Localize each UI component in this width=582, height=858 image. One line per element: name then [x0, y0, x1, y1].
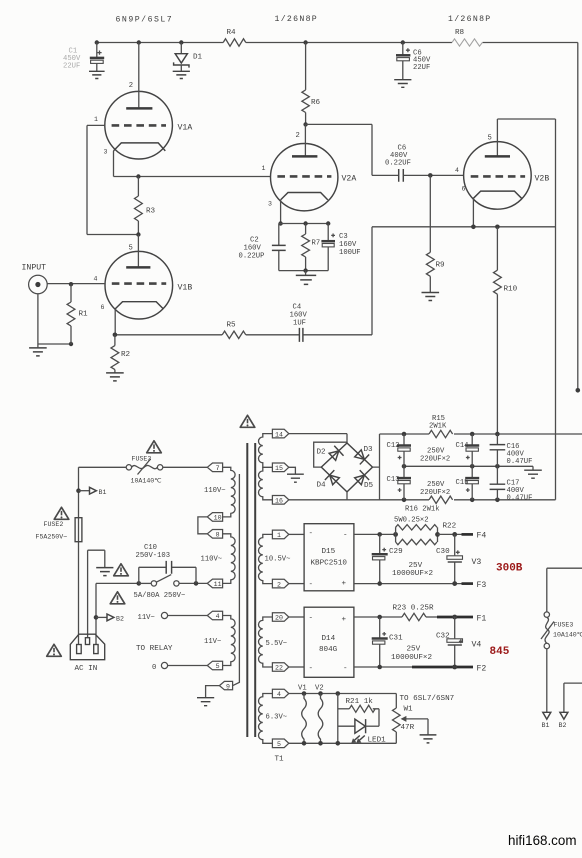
- winding P1 110V: [204, 467, 235, 517]
- wire D15 bottom output: [354, 581, 473, 586]
- tag 11: [207, 579, 222, 588]
- svg-text:0.47UF: 0.47UF: [507, 458, 533, 466]
- svg-text:4: 4: [216, 613, 220, 620]
- resistor R21 1k: [338, 698, 379, 726]
- svg-text:5: 5: [488, 135, 492, 143]
- wire D14 top output: [354, 615, 402, 620]
- rectifier D15 KBPC2510: [304, 524, 354, 591]
- heater V1: [298, 685, 307, 744]
- bridge diamond D2-D5: [321, 443, 372, 492]
- wire V1A cathode to V2A grid: [114, 151, 271, 179]
- svg-text:+: +: [342, 580, 347, 588]
- svg-text:11V~: 11V~: [138, 614, 155, 622]
- wire B+ top rail: [95, 40, 578, 44]
- tag 10: [207, 513, 222, 522]
- svg-text:D4: D4: [317, 482, 327, 490]
- svg-text:2: 2: [277, 581, 281, 588]
- capacitor C16 400V 0.47UF: [490, 434, 533, 466]
- svg-text:R2: R2: [121, 351, 131, 359]
- capacitor C6 400V 0.22UF (coupling): [372, 145, 464, 182]
- svg-text:10000UF×2: 10000UF×2: [392, 570, 433, 578]
- ground (C2 R7 C3): [296, 275, 316, 284]
- svg-text:B1: B1: [542, 722, 550, 729]
- svg-text:F5A250V~: F5A250V~: [36, 534, 68, 541]
- svg-text:+: +: [342, 616, 347, 624]
- wire filter mid rail: [402, 464, 533, 469]
- svg-text:V2A: V2A: [342, 175, 357, 184]
- wire R22 to F4: [438, 532, 474, 537]
- svg-text:-: -: [309, 581, 314, 589]
- ground (D1): [173, 71, 190, 78]
- resistor R8 (faint label): [452, 29, 483, 46]
- V1A cathode: [114, 143, 166, 151]
- svg-text:1: 1: [94, 116, 98, 123]
- svg-text:D14: D14: [322, 635, 336, 643]
- svg-text:hifi168.com: hifi168.com: [508, 833, 576, 848]
- connector arrow B2: [107, 614, 124, 623]
- wire D15 top output: [354, 532, 396, 537]
- ground (shield): [197, 698, 214, 706]
- wire bridge DC+ to filter: [373, 434, 380, 500]
- svg-text:160V: 160V: [244, 245, 262, 253]
- node coupling to V2B grid: [428, 173, 433, 178]
- terminal F2: [477, 665, 487, 674]
- label tube type 1/26N8P: [275, 14, 319, 24]
- rectifier D14 804G: [304, 607, 354, 677]
- svg-text:R16 2W1k: R16 2W1k: [405, 506, 440, 514]
- ground (tag 15): [287, 474, 304, 482]
- diode D5: [353, 470, 369, 486]
- diode D4: [325, 470, 341, 486]
- svg-text:C4: C4: [293, 304, 302, 312]
- tag 16: [272, 496, 288, 505]
- fuse FUSE2 F5A250V: [36, 518, 82, 542]
- svg-text:2: 2: [296, 132, 300, 140]
- capacitor C10 250V-103: [136, 544, 197, 583]
- capacitor C4 160V 1UF: [290, 304, 373, 342]
- svg-text:R22: R22: [443, 523, 457, 531]
- warning triangle (switch upper): [114, 564, 129, 576]
- wire to B1 (bottom): [546, 649, 548, 713]
- capacitor C2 160V 0.22UP: [239, 224, 286, 271]
- resistor R1: [67, 284, 88, 344]
- svg-text:W1: W1: [404, 706, 414, 714]
- svg-text:FUSE3: FUSE3: [554, 622, 574, 629]
- svg-text:7: 7: [216, 465, 220, 472]
- terminal F3: [477, 581, 487, 590]
- wire V2B cathode pin 6: [472, 198, 474, 227]
- wire filter bottom rail: [380, 498, 556, 503]
- tag 5 (primary): [207, 661, 222, 670]
- plug AC IN: [70, 634, 104, 673]
- wire tag1 to D15: [289, 533, 304, 535]
- V2A grid (dashed): [277, 175, 331, 178]
- svg-text:5: 5: [216, 663, 220, 670]
- wire cathode network bottom rail: [279, 268, 328, 275]
- svg-text:4: 4: [455, 167, 459, 174]
- svg-text:FUSE3: FUSE3: [132, 456, 152, 463]
- svg-text:F1: F1: [477, 615, 487, 624]
- svg-text:10: 10: [214, 515, 222, 522]
- svg-text:-: -: [309, 530, 314, 538]
- watermark hifi168.com: [508, 833, 576, 848]
- label tube type 6N9P/6SL7: [116, 15, 174, 25]
- winding P2 110V: [201, 534, 236, 584]
- diode D1 (zener): [174, 43, 203, 72]
- resistor R15 2W1K: [429, 415, 453, 438]
- wire V2A cathode pin3: [278, 200, 282, 226]
- svg-text:4: 4: [94, 276, 98, 283]
- capacitor C12: [387, 434, 412, 466]
- wire mains neutral: [96, 583, 139, 644]
- svg-text:5W0.25×2: 5W0.25×2: [394, 517, 429, 525]
- svg-text:D1: D1: [193, 54, 203, 62]
- svg-text:250V: 250V: [427, 448, 445, 456]
- svg-text:T1: T1: [275, 756, 285, 764]
- svg-text:C3: C3: [339, 233, 348, 241]
- svg-text:8: 8: [216, 532, 220, 539]
- wire D14 bottom output: [354, 665, 473, 670]
- svg-text:300B: 300B: [496, 563, 523, 575]
- wire bridge AC to left vertex: [314, 442, 347, 467]
- capacitor C14: [456, 434, 480, 466]
- label 25V 10000UF x2: [392, 562, 433, 578]
- svg-text:22: 22: [275, 665, 283, 672]
- terminal F4: [477, 532, 487, 541]
- wire tag 9 to ground: [206, 686, 220, 698]
- wire V1B cathode node: [113, 309, 223, 337]
- tag 9 (shield): [219, 681, 232, 690]
- svg-text:TO 6SL7/6SN7: TO 6SL7/6SN7: [400, 695, 455, 703]
- svg-text:250V: 250V: [427, 481, 445, 489]
- label 25V 10000UF x2: [391, 646, 432, 663]
- label TO RELAY: [136, 645, 173, 653]
- svg-text:D2: D2: [317, 449, 327, 457]
- svg-text:-: -: [343, 665, 348, 673]
- diode D3: [353, 448, 369, 464]
- svg-text:0.47UF: 0.47UF: [507, 495, 533, 503]
- svg-text:C13: C13: [387, 476, 400, 484]
- svg-text:R4: R4: [227, 29, 237, 37]
- svg-text:14: 14: [275, 431, 283, 438]
- winding P3 11V: [204, 616, 235, 666]
- potentiometer W1 47R: [393, 694, 415, 744]
- wire R23 to F1: [426, 615, 473, 620]
- svg-text:C15: C15: [456, 479, 469, 487]
- V1A grid (dashed): [112, 124, 166, 127]
- svg-text:6.3V~: 6.3V~: [266, 714, 288, 722]
- svg-text:5A/80A 250V~: 5A/80A 250V~: [134, 592, 186, 600]
- svg-text:R7: R7: [312, 240, 321, 248]
- label 250V 220UF x2 (upper): [420, 448, 450, 464]
- svg-text:V3: V3: [472, 558, 482, 567]
- triode V2A: [262, 124, 357, 210]
- resistor R16 2W1k: [405, 496, 453, 513]
- svg-text:16: 16: [275, 498, 283, 505]
- svg-text:3: 3: [268, 201, 272, 208]
- svg-text:220UF×2: 220UF×2: [420, 489, 450, 497]
- svg-text:804G: 804G: [319, 646, 338, 654]
- label V3: [472, 558, 482, 567]
- svg-text:D15: D15: [322, 548, 336, 556]
- svg-text:2W1K: 2W1K: [429, 423, 447, 431]
- V2A cathode: [281, 193, 328, 200]
- tag 4 (secondary): [272, 689, 288, 698]
- V1A grid pin 1 wire: [87, 124, 105, 126]
- wire right edge drop: [576, 43, 581, 393]
- svg-text:C31: C31: [389, 635, 403, 643]
- svg-text:0.22UP: 0.22UP: [239, 253, 265, 261]
- svg-text:6N9P/6SL7: 6N9P/6SL7: [116, 15, 174, 25]
- svg-text:1: 1: [262, 165, 266, 172]
- resistor R3: [135, 177, 156, 237]
- wire C4 riser to cathode bus: [371, 227, 373, 335]
- svg-text:22UF: 22UF: [413, 64, 430, 72]
- svg-text:4: 4: [277, 691, 281, 698]
- svg-text:10A140℃: 10A140℃: [131, 478, 163, 485]
- svg-text:TO RELAY: TO RELAY: [136, 645, 173, 653]
- svg-text:C12: C12: [387, 442, 400, 450]
- wire V2B plate drop (right): [555, 119, 557, 500]
- warning triangle (switch lower): [110, 592, 125, 604]
- wire cathode network top rail: [279, 221, 331, 225]
- wire from tag 14 to bridge: [289, 434, 347, 443]
- V1B cathode: [115, 302, 163, 309]
- svg-text:R9: R9: [436, 262, 446, 270]
- svg-text:R8: R8: [455, 29, 465, 37]
- svg-text:D3: D3: [364, 446, 374, 454]
- connector 0 to relay: [152, 662, 207, 671]
- capacitor C3 160V 100UF: [321, 224, 360, 271]
- warning triangle (FUSE3): [147, 441, 162, 453]
- heater V2: [315, 685, 324, 744]
- LED LED1: [338, 719, 386, 744]
- winding S1 (HT): [258, 434, 272, 500]
- ground (filter mid rail): [524, 466, 542, 478]
- svg-text:0.22UF: 0.22UF: [385, 160, 411, 168]
- svg-text:10000UF×2: 10000UF×2: [391, 654, 432, 662]
- transformer shield: [233, 474, 240, 686]
- warning triangle (plug): [47, 644, 62, 656]
- svg-text:1UF: 1UF: [293, 320, 306, 328]
- wire tag22 to D14: [289, 666, 304, 668]
- node B2 tap: [94, 615, 107, 620]
- wire bridge bottom vertex to rail: [289, 492, 380, 500]
- svg-text:0: 0: [152, 664, 156, 672]
- svg-text:V2B: V2B: [535, 175, 550, 184]
- svg-text:R21 1k: R21 1k: [346, 698, 374, 706]
- ground (C6 PSU): [394, 80, 411, 88]
- svg-text:V1: V1: [298, 685, 307, 693]
- svg-text:1/26N8P: 1/26N8P: [448, 14, 492, 24]
- V2B plate pin 5 loop: [497, 119, 555, 156]
- label V4: [472, 641, 482, 650]
- V1A plate pin 2 stem: [138, 43, 140, 108]
- svg-text:10A140℃: 10A140℃: [553, 632, 582, 639]
- svg-text:R1: R1: [79, 311, 89, 319]
- svg-text:F2: F2: [477, 665, 487, 674]
- label 845 (red): [490, 646, 510, 658]
- connector INPUT jack: [22, 264, 74, 347]
- resistor R10: [494, 227, 518, 434]
- svg-text:5: 5: [129, 245, 133, 253]
- tag 7: [207, 463, 222, 472]
- wire B+ feed right edge: [547, 568, 582, 612]
- fuse FUSE3 10A140C (left): [126, 456, 163, 485]
- svg-text:C14: C14: [456, 442, 469, 450]
- svg-text:11V~: 11V~: [204, 638, 221, 646]
- capacitor C32: [436, 617, 463, 667]
- svg-text:-: -: [343, 532, 348, 540]
- svg-text:C2: C2: [250, 237, 259, 245]
- tag 14: [272, 429, 288, 438]
- tag 15: [272, 463, 288, 472]
- tag 22: [272, 663, 288, 672]
- svg-text:1: 1: [277, 532, 281, 539]
- tag 8: [207, 530, 222, 539]
- label 250V 220UF x2 (lower): [420, 481, 450, 497]
- label tube type 1/26N8P (faint): [448, 14, 492, 24]
- svg-text:160V: 160V: [339, 241, 357, 249]
- svg-text:R6: R6: [311, 99, 321, 107]
- svg-text:5.5V~: 5.5V~: [266, 640, 288, 648]
- ground (input jack): [29, 344, 47, 356]
- resistor R9: [426, 175, 445, 292]
- ground (mains earth): [96, 568, 113, 576]
- label D2: [317, 449, 327, 457]
- wire tag2 to D15: [289, 583, 304, 585]
- svg-text:V2: V2: [315, 685, 324, 693]
- node B1 tap: [76, 488, 89, 493]
- label T1: [275, 756, 285, 764]
- svg-text:110V~: 110V~: [204, 487, 226, 495]
- svg-text:D5: D5: [364, 482, 374, 490]
- svg-text:C32: C32: [436, 633, 450, 641]
- svg-text:160V: 160V: [290, 312, 308, 320]
- resistor R7: [302, 224, 320, 271]
- svg-text:B2: B2: [116, 616, 124, 623]
- svg-text:10.5V~: 10.5V~: [265, 556, 291, 564]
- svg-text:C10: C10: [144, 544, 157, 552]
- svg-text:25V: 25V: [409, 562, 423, 570]
- wire tag 15 to ground: [289, 467, 296, 474]
- diode D2: [328, 446, 344, 462]
- label 300B (red): [496, 563, 523, 575]
- svg-text:F3: F3: [477, 581, 487, 590]
- svg-text:11: 11: [214, 581, 222, 588]
- wire mains live drop: [78, 467, 80, 645]
- svg-text:R10: R10: [504, 286, 518, 294]
- svg-text:110V~: 110V~: [201, 556, 223, 564]
- wire B+ filter top rail: [380, 432, 582, 437]
- node top rail junctions: [95, 40, 99, 44]
- wire jumper tags 10-8: [198, 517, 207, 534]
- resistor R22 5W0.25x2 (parallel pair): [393, 517, 456, 545]
- wire mains live to tag 7: [79, 466, 208, 468]
- capacitor C6 450V 22UF (PSU): [396, 43, 431, 80]
- svg-text:C29: C29: [389, 548, 403, 556]
- fuse FUSE3 10A140C (right): [541, 612, 582, 649]
- svg-text:22UF: 22UF: [63, 63, 80, 71]
- svg-text:15: 15: [275, 465, 283, 472]
- node V2A plate: [303, 122, 372, 175]
- svg-text:V4: V4: [472, 641, 482, 650]
- svg-text:INPUT: INPUT: [22, 264, 47, 273]
- tag 1: [272, 530, 288, 539]
- svg-text:B1: B1: [99, 489, 107, 496]
- svg-text:220UF×2: 220UF×2: [420, 455, 450, 463]
- V2B grid (dashed): [471, 175, 525, 178]
- svg-text:V1A: V1A: [178, 124, 193, 133]
- resistor R4: [223, 29, 246, 46]
- V1B grid (dashed): [112, 282, 166, 285]
- svg-text:AC IN: AC IN: [75, 665, 98, 673]
- svg-text:KBPC2510: KBPC2510: [311, 560, 348, 568]
- svg-text:C30: C30: [436, 548, 450, 556]
- ground (R9): [422, 293, 440, 301]
- transformer T1 core: [247, 443, 255, 737]
- resistor R23 0.25R: [393, 605, 434, 621]
- connector arrow B1 (bottom): [542, 712, 551, 729]
- svg-text:5: 5: [277, 741, 281, 748]
- svg-text:V1B: V1B: [178, 284, 193, 293]
- ground (W1 wiper): [420, 735, 437, 743]
- resistor R6: [302, 43, 321, 125]
- V1B grid pin 4 wire: [47, 283, 105, 285]
- connector 11V~ to relay: [138, 612, 208, 622]
- triode V1B: [47, 235, 192, 320]
- triode V2B: [455, 119, 556, 209]
- ground (R2): [106, 373, 124, 381]
- resistor R5: [222, 322, 299, 339]
- wire cathode bus: [372, 225, 556, 230]
- svg-text:R3: R3: [146, 208, 156, 216]
- svg-text:R5: R5: [227, 322, 237, 330]
- wire LED branch vertical: [337, 694, 339, 744]
- svg-text:9: 9: [226, 683, 230, 690]
- ground (C1): [89, 71, 105, 78]
- svg-text:6: 6: [462, 186, 466, 193]
- tag 5 (secondary): [272, 739, 288, 748]
- winding S3 5.5V: [259, 617, 288, 667]
- svg-text:25V: 25V: [407, 646, 421, 654]
- warning triangle (above transformer): [240, 415, 255, 427]
- svg-text:47R: 47R: [401, 724, 415, 732]
- svg-text:6: 6: [101, 304, 105, 311]
- wire 6.3V bottom row: [289, 741, 397, 746]
- wire V1A grid feedback (down to V1B plate node): [87, 125, 138, 234]
- capacitor C15: [456, 466, 480, 500]
- V2B cathode: [473, 191, 521, 198]
- capacitor C17 400V 0.47UF: [490, 466, 533, 502]
- tag 20: [272, 613, 288, 622]
- svg-text:F4: F4: [477, 532, 487, 541]
- warning triangle (FUSE2): [54, 507, 69, 519]
- svg-text:-: -: [309, 665, 314, 673]
- svg-text:B2: B2: [559, 722, 567, 729]
- svg-text:R23 0.25R: R23 0.25R: [393, 605, 434, 613]
- wire mains earth: [88, 550, 105, 637]
- label D5: [364, 482, 374, 490]
- label D4: [317, 482, 327, 490]
- svg-text:2: 2: [129, 82, 133, 90]
- wiper arrow W1: [401, 716, 428, 735]
- svg-text:-: -: [309, 615, 314, 623]
- capacitor C13: [387, 466, 412, 500]
- svg-text:100UF: 100UF: [339, 249, 361, 257]
- connector arrow B1: [90, 487, 107, 496]
- tag 4 (primary): [207, 611, 222, 620]
